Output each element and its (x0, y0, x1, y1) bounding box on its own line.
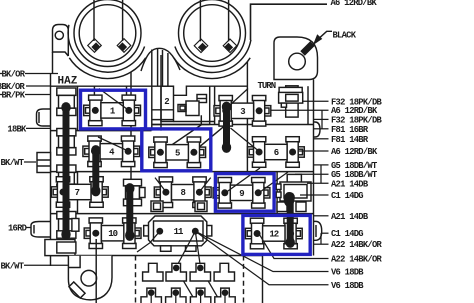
svg-text:BLACK: BLACK (333, 31, 357, 41)
bottom vertical below fuse12 (262, 256, 264, 303)
fuse 12 (245, 218, 302, 249)
svg-text:6: 6 (274, 148, 279, 158)
wire from fuse 10 down through foot (95, 239, 97, 303)
mounting tab top-left (53, 25, 69, 57)
svg-text:V6 18DB: V6 18DB (331, 281, 364, 291)
wire fuse 11 to terminal T3 (195, 231, 200, 268)
busbar B5 top blob (284, 192, 295, 207)
wire label BR/PK left (25, 94, 51, 96)
wire fuse 12 to A22 label (259, 234, 329, 259)
svg-text:A21 14DB: A21 14DB (331, 179, 369, 189)
svg-text:18BK: 18BK (7, 124, 27, 134)
wire label BK/OR left (25, 73, 58, 75)
svg-text:10: 10 (108, 229, 117, 239)
wire label 16RD left (26, 227, 31, 229)
clipped label dashes (0, 74, 2, 95)
wire stub to fuse 1 right (126, 86, 128, 95)
grid line h y124 (152, 124, 314, 126)
terminal row2 #2 (166, 288, 186, 303)
svg-text:V6 18DB: V6 18DB (331, 268, 364, 278)
fuse 5 (149, 137, 206, 168)
svg-text:BK/WT: BK/WT (1, 158, 25, 168)
svg-text:9: 9 (239, 189, 244, 199)
connector pair above fuse 12 (277, 202, 306, 212)
wire from fuse 3 left (226, 89, 248, 110)
T4 side tab (72, 219, 79, 232)
wire fuse 11 to terminal (137, 231, 160, 252)
grid line h y171 (51, 171, 314, 173)
grid line h y130 (51, 130, 152, 132)
wire label BK/WT left (24, 264, 68, 266)
hazard socket pin 2 (117, 39, 131, 53)
fuse 2 cell (152, 50, 215, 131)
terminal row1 #2 (166, 263, 186, 281)
fuse 3 (214, 96, 271, 127)
wire into fuse 8 left (155, 178, 166, 192)
fuse 1 (84, 95, 141, 126)
wire bar4 to fuse 6 (231, 128, 260, 152)
busbar B4 (222, 102, 231, 153)
wire label C1 14DG right y233 (322, 232, 329, 234)
wire from T3 terminal (201, 268, 221, 303)
wire into fuse 9 right (258, 172, 288, 193)
hump between sockets (141, 48, 180, 71)
right edge bump 1 (314, 122, 321, 137)
fuse 10 (84, 218, 141, 249)
busbar B5 (286, 192, 295, 248)
wire label F32 18PK/DB right y101 (303, 100, 329, 102)
connector C8 (124, 179, 146, 205)
svg-text:12: 12 (269, 230, 278, 240)
left terminal block T5 (45, 240, 76, 256)
terminal row2 #1 (141, 288, 161, 303)
wire label C1 14DG right y195 (300, 194, 329, 196)
wire from turn pin 1 (199, 0, 201, 41)
wire label F81 16BR right y129 (314, 128, 329, 130)
wire stub to fuse 1 left (93, 86, 95, 96)
wire fuse 11 to V6 label 1 (195, 231, 328, 271)
wire label 18BK left (26, 127, 51, 129)
dashed boundary left (135, 256, 137, 303)
terminal row2 #3 lead (200, 294, 202, 303)
highlight box fuse 9 (215, 174, 274, 212)
svg-text:BK/OR: BK/OR (2, 70, 26, 80)
wire label A6 12RD/BK right y151 (299, 150, 329, 152)
wire label A22 14BK/OR right y244 (314, 243, 329, 245)
flasher socket housing arcs right (175, 40, 251, 73)
svg-text:F81 16BR: F81 16BR (331, 125, 369, 135)
terminal row2 #4 lead (224, 294, 226, 303)
bracket hole (289, 53, 306, 70)
wire into fuse 4 (98, 137, 128, 151)
svg-text:16RD: 16RD (8, 224, 27, 234)
relay K1 (178, 95, 207, 116)
svg-text:5: 5 (175, 148, 180, 158)
busbar B3 (125, 183, 134, 241)
highlight box fuse 1 (81, 90, 146, 129)
terminal row2 #1 lead (150, 294, 152, 303)
wire from hazard pin 1 (93, 0, 95, 41)
connector stub 18BK (37, 109, 51, 126)
wire to fuse 5 left (162, 115, 202, 152)
panel top edge (51, 86, 248, 95)
wire label F32 18PK/DB right y119 (314, 118, 329, 120)
fuse 7 (51, 177, 108, 208)
fuse 9 (213, 178, 270, 209)
leader bracket A6/F32/F81 (321, 110, 323, 129)
turn socket pin 2 (223, 39, 237, 53)
highlight box fuse 12 (243, 215, 310, 254)
mounting bracket right (274, 37, 318, 80)
flasher housing flange right (174, 58, 250, 79)
grid line v x77 lower (77, 172, 79, 214)
flasher socket housing arcs left (68, 25, 144, 72)
wires from hump into panel (158, 48, 168, 86)
terminal row2 #3 (190, 288, 210, 303)
grid line v x77 upper (77, 86, 79, 131)
grid line v x247 (246, 62, 248, 172)
fuse 8 (154, 177, 211, 208)
svg-text:BK/WT: BK/WT (1, 261, 25, 271)
terminal row1 #1 (143, 263, 163, 281)
svg-text:3: 3 (240, 107, 245, 117)
BLACK label arrow (319, 31, 333, 39)
svg-text:C1 14DG: C1 14DG (331, 191, 363, 201)
fuse 4 (83, 136, 140, 167)
wire label A21 14DB right y183 (307, 182, 329, 184)
wire label G5 18DB/WT right y165 (314, 164, 329, 166)
wire to fuse 5 right (193, 126, 225, 153)
wire label BK/WT left (24, 161, 36, 163)
left terminal block T3 (57, 165, 76, 192)
hazard socket pin 1 (88, 39, 102, 53)
wire from turn pin 2 (228, 0, 230, 41)
relay cluster right of fuse 9 (276, 174, 311, 201)
left terminal block T4 (57, 212, 76, 239)
wire from hazard pin 2 (122, 0, 124, 41)
terminal row1 #4 (214, 263, 234, 281)
wire label 8BK/OR left (26, 85, 51, 87)
wire fuse 11 to V6 label 2 (195, 231, 328, 285)
wire from T2 terminal (176, 268, 197, 303)
left terminal block T2 (57, 129, 76, 156)
wire into fuse 9 left (225, 168, 260, 193)
busbar B2 (91, 145, 100, 196)
wire into fuse 1 (99, 89, 129, 111)
wire label F81 14BR right y139 (314, 138, 329, 140)
svg-text:BR/PK: BR/PK (2, 91, 26, 101)
terminal row1 #3 (190, 263, 210, 281)
hazard flasher socket (74, 0, 141, 67)
svg-text:HAZ: HAZ (58, 76, 78, 88)
svg-text:A22 14BK/OR: A22 14BK/OR (331, 240, 382, 250)
svg-text:7: 7 (75, 188, 80, 198)
grid line v x308 (307, 86, 309, 124)
busbar B1 (61, 102, 70, 240)
fuse box left edge (51, 52, 53, 266)
svg-text:TURN: TURN (258, 81, 276, 91)
connector 16RD clamp (31, 222, 51, 238)
svg-text:A21 14DB: A21 14DB (331, 212, 369, 222)
mounting foot bottom-left (68, 256, 112, 300)
grid line h y213 (51, 213, 314, 215)
turn flasher socket (179, 0, 246, 67)
terminal row2 #4 (215, 288, 235, 303)
panel right edge (313, 80, 315, 256)
terminal row2 #2 lead (175, 294, 177, 303)
dashed boundary right (243, 256, 245, 303)
wire to A6 12RD/BK top (251, 4, 328, 40)
svg-text:F81 14BR: F81 14BR (331, 135, 369, 145)
fuse 11 (144, 201, 212, 251)
black mark on bracket (300, 41, 314, 55)
wire label A6 12RD/BK right y110 (272, 109, 329, 111)
fuse 6 (248, 137, 305, 168)
wire label G5 18DB/WT right y174 (295, 173, 329, 175)
panel bottom edge (51, 255, 263, 257)
connector BK/WT (37, 153, 51, 173)
wire label A21 14DB right y216 (314, 215, 329, 217)
grid line v x277 (276, 172, 278, 214)
leader bracket C1/A22 (320, 233, 322, 244)
grid line v x131 (130, 72, 132, 214)
leader bracket G5/A21 (320, 165, 322, 183)
mounting tab hole (55, 31, 63, 39)
svg-text:C1 14DG: C1 14DG (331, 229, 363, 239)
fuse 2 (152, 86, 174, 121)
svg-text:A22 14BK/OR: A22 14BK/OR (331, 255, 382, 265)
turn socket pin 1 (194, 39, 208, 53)
svg-text:8: 8 (180, 188, 185, 198)
svg-text:A6 12RD/BK: A6 12RD/BK (331, 147, 378, 157)
wire into fuse 8 right (199, 178, 210, 192)
right edge bump 2 (314, 221, 322, 240)
svg-text:A6 12RD/BK: A6 12RD/BK (331, 0, 378, 8)
turn relay (279, 86, 303, 117)
flasher housing flange left (69, 58, 145, 79)
svg-text:2: 2 (164, 97, 169, 107)
wire fuse 11 to terminal T2 (176, 231, 196, 268)
left terminal block T1 (HAZ) (57, 88, 76, 116)
highlight box fuse 5 (142, 129, 211, 171)
